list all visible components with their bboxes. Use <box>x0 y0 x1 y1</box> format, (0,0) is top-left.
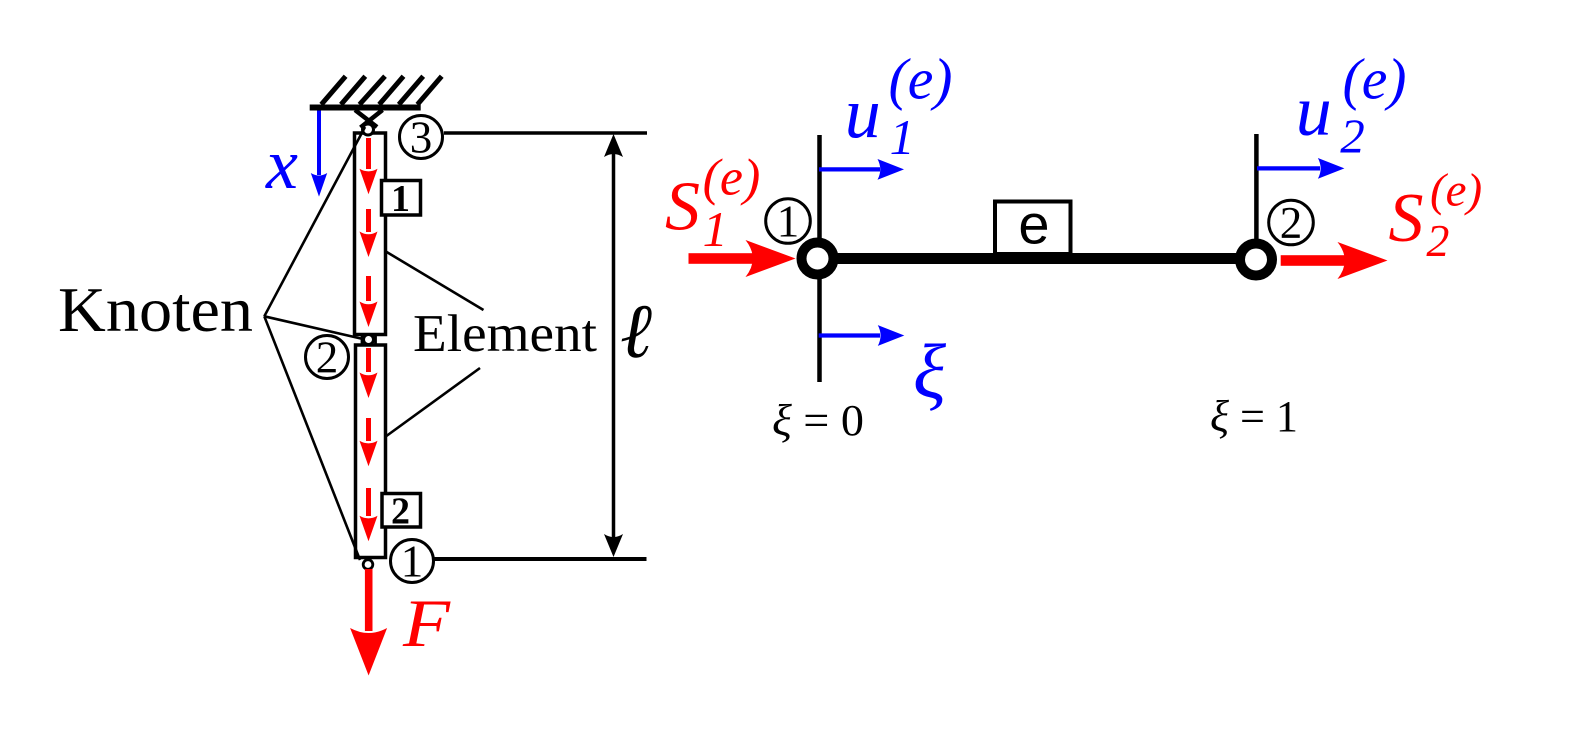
Knoten pointer line to node 3 <box>264 127 365 316</box>
svg-text:2: 2 <box>391 491 410 533</box>
Element pointer line to element 1 <box>385 251 484 310</box>
element 1 bar rectangle <box>355 133 386 335</box>
element 1 number box <box>382 178 421 220</box>
label u1(e) <box>845 47 953 165</box>
svg-text:2: 2 <box>316 333 339 383</box>
Element pointer line to element 2 <box>386 368 480 437</box>
ceiling support bar <box>310 105 421 111</box>
red force arrow S1 <box>689 240 796 277</box>
local node 2 label circle <box>1269 198 1314 248</box>
svg-text:u: u <box>845 73 881 153</box>
svg-text:e: e <box>1018 193 1049 256</box>
blue displacement arrow u1 <box>819 159 904 180</box>
svg-text:1: 1 <box>401 537 424 587</box>
svg-text:2: 2 <box>1280 198 1303 248</box>
node 1 label circle <box>391 537 434 587</box>
label u2(e) <box>1296 47 1407 164</box>
svg-text:Element: Element <box>413 305 597 363</box>
svg-text:Knoten: Knoten <box>58 274 253 345</box>
svg-text:1: 1 <box>391 178 410 220</box>
external force F arrow <box>350 569 387 676</box>
dimension line with arrowheads <box>604 134 623 557</box>
local node 1 label circle <box>766 197 811 247</box>
hinge links between elements <box>362 334 376 346</box>
element e node ring 2 <box>1240 244 1272 276</box>
svg-text:u: u <box>1296 71 1332 151</box>
blue local coordinate arrow xi <box>819 325 905 346</box>
svg-text:2: 2 <box>1340 108 1365 163</box>
svg-text:F: F <box>402 585 452 661</box>
pin support cross links <box>355 110 383 128</box>
svg-text:x: x <box>265 124 298 204</box>
element e thick bar line <box>820 253 1256 264</box>
svg-text:S: S <box>665 169 700 246</box>
svg-text:1: 1 <box>890 109 915 165</box>
svg-text:S: S <box>1389 180 1424 257</box>
blue displacement arrow u2 <box>1257 158 1344 179</box>
bottom dimension extension line <box>433 557 647 561</box>
right figure: local node 1 axis line <box>817 135 822 382</box>
svg-text:ℓ: ℓ <box>620 288 652 374</box>
red internal force arrows element 2 <box>360 348 378 541</box>
hinge circle node 2 <box>364 335 374 345</box>
Knoten pointer line to node 2 <box>264 316 363 339</box>
Knoten pointer line to node 1 <box>264 316 360 560</box>
ceiling hatch lines <box>321 76 441 104</box>
hinge circle node 1 <box>363 560 373 570</box>
element e node ring 1 <box>802 243 834 275</box>
element e label box <box>995 193 1071 256</box>
red internal force arrows element 1 <box>360 138 378 327</box>
label S2(e) <box>1389 164 1483 266</box>
svg-text:3: 3 <box>410 113 433 163</box>
red force arrow S2 <box>1281 242 1388 279</box>
svg-text:1: 1 <box>777 197 800 247</box>
label S1(e) <box>665 149 760 257</box>
svg-text:(e): (e) <box>889 47 953 112</box>
pin support hinge circle node 3 <box>363 124 374 135</box>
svg-text:1: 1 <box>703 201 728 257</box>
svg-text:(e): (e) <box>703 149 761 206</box>
svg-text:2: 2 <box>1426 215 1449 266</box>
node 2 label circle <box>306 333 349 383</box>
svg-text:ξ = 0: ξ = 0 <box>772 396 864 445</box>
element 2 bar rectangle <box>356 345 386 558</box>
right figure: local node 2 axis line <box>1254 134 1259 242</box>
top dimension extension line <box>444 131 647 135</box>
svg-text:(e): (e) <box>1430 164 1482 216</box>
element 2 number box <box>382 491 421 533</box>
blue x-axis arrow <box>311 111 327 197</box>
svg-text:ξ: ξ <box>913 328 946 414</box>
svg-text:ξ = 1: ξ = 1 <box>1210 392 1298 441</box>
node 3 label circle <box>400 113 443 163</box>
svg-text:(e): (e) <box>1343 47 1407 112</box>
